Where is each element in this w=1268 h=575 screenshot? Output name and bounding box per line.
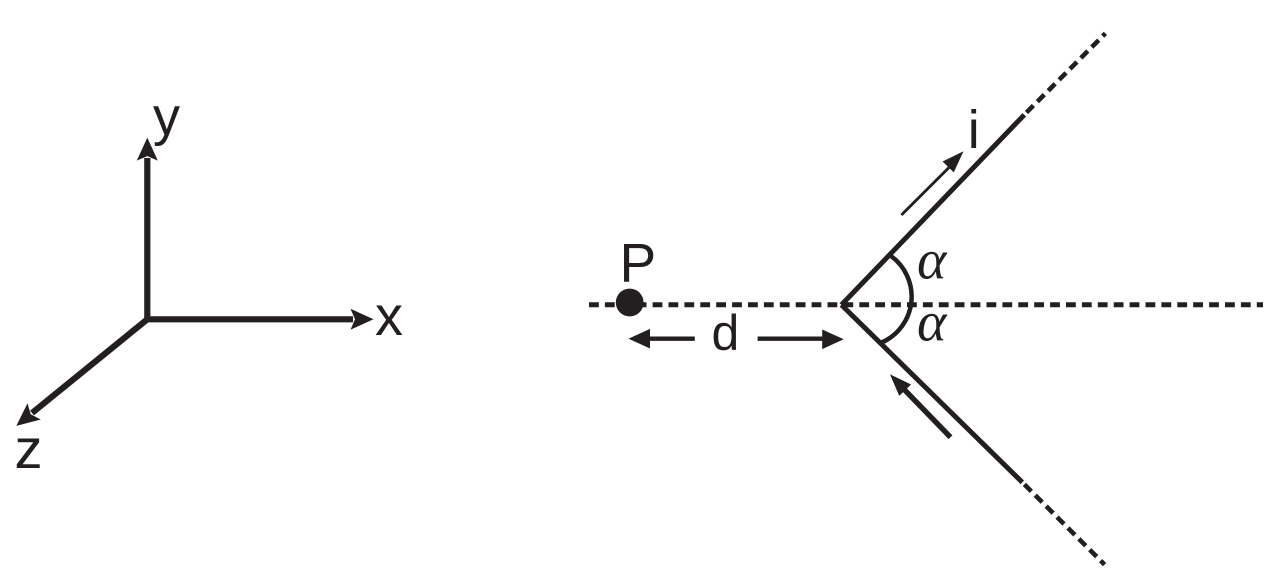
lower current arrowhead (884, 369, 911, 396)
upper wire solid segment (841, 115, 1024, 305)
svg-text:α: α (917, 230, 948, 292)
lower wire solid segment (841, 305, 1022, 482)
d dimension right arrow shaft (758, 337, 828, 341)
d dimension right arrowhead (822, 330, 844, 350)
angle arc at vertex (882, 256, 912, 343)
x-axis arrowhead (351, 309, 374, 330)
lower wire dashed extension (1024, 484, 1104, 564)
d dimension left arrowhead (629, 329, 651, 349)
svg-text:x: x (375, 284, 403, 347)
svg-text:d: d (712, 305, 740, 361)
z-axis (32, 319, 147, 413)
y-axis (144, 158, 150, 319)
svg-text:α: α (917, 292, 948, 354)
current direction arrowhead (943, 146, 970, 173)
d dimension left arrow shaft (648, 337, 695, 341)
svg-text:P: P (620, 231, 657, 293)
x-axis (147, 316, 353, 322)
upper wire dashed extension (1027, 33, 1106, 112)
svg-text:y: y (153, 87, 180, 147)
horizontal dashed line through P (589, 302, 1263, 307)
current direction arrow on upper wire shaft (901, 168, 949, 216)
svg-text:z: z (15, 417, 43, 480)
current direction arrow on lower wire shaft (904, 389, 951, 437)
point P dot (616, 289, 644, 317)
y-axis arrowhead (137, 138, 158, 161)
z-axis arrowhead (10, 403, 41, 434)
svg-text:i: i (968, 100, 980, 160)
